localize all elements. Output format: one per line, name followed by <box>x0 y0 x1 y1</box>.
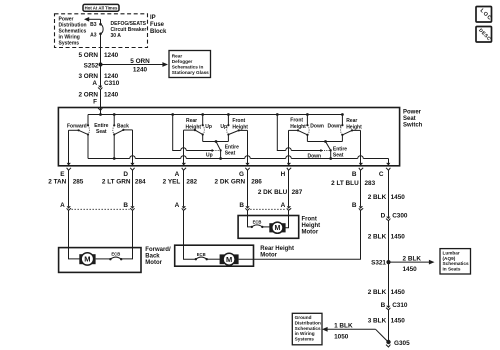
svg-text:5 ORN: 5 ORN <box>130 58 150 65</box>
svg-text:1450: 1450 <box>391 234 406 241</box>
svg-text:Rear: Rear <box>186 118 197 124</box>
svg-text:Front: Front <box>232 118 245 124</box>
svg-text:Back: Back <box>117 124 129 130</box>
Rear Height Motor box <box>175 245 254 266</box>
IP fuse block dashed box <box>55 14 148 48</box>
svg-text:IP: IP <box>150 15 156 21</box>
up block right contact stub <box>227 115 229 142</box>
svg-text:A: A <box>281 202 286 209</box>
wire D inside box <box>130 130 134 166</box>
wire rear height motor to B terminal <box>239 210 361 259</box>
LOC icon <box>476 7 493 23</box>
wire 2 DK BLU 287 <box>258 189 303 196</box>
up block left contact stub <box>202 115 204 142</box>
svg-text:1240: 1240 <box>104 73 119 80</box>
entire seat up feed wire <box>173 115 214 152</box>
connector dashed link G-H pair <box>250 208 286 210</box>
splice S321 <box>371 260 391 267</box>
wire S321 down to C310 <box>388 262 390 306</box>
svg-text:Motor: Motor <box>145 260 162 266</box>
arrow into ground distribution box <box>322 327 328 332</box>
wire 2 BLK 1450 (below C300) <box>368 234 406 241</box>
svg-text:A: A <box>60 202 65 209</box>
wire 2 LT GRN 284 <box>102 179 146 186</box>
svg-text:Rear Height: Rear Height <box>260 246 294 252</box>
svg-text:Defogger: Defogger <box>172 59 193 64</box>
svg-text:B: B <box>123 202 128 209</box>
Ground Distribution box <box>292 313 322 345</box>
svg-text:(AQ9): (AQ9) <box>443 256 456 261</box>
svg-text:Up: Up <box>206 153 213 159</box>
down block bottom edge <box>307 140 342 143</box>
svg-text:Distribution: Distribution <box>295 321 321 326</box>
svg-text:Forward: Forward <box>67 124 87 130</box>
up block bottom edge <box>203 140 229 143</box>
wire E to forward/back motor <box>69 210 82 259</box>
svg-text:287: 287 <box>292 189 303 196</box>
svg-text:282: 282 <box>186 179 197 186</box>
wire B inside box <box>359 130 363 165</box>
connector pin labels <box>60 202 357 209</box>
svg-text:2 BLK: 2 BLK <box>368 194 387 201</box>
svg-text:2 LT BLU: 2 LT BLU <box>331 180 359 187</box>
svg-text:1450: 1450 <box>403 266 418 273</box>
svg-text:1450: 1450 <box>391 289 406 296</box>
wire G inside box <box>245 130 249 165</box>
svg-text:Height: Height <box>302 223 321 229</box>
svg-text:Schematics: Schematics <box>443 261 469 266</box>
wire C inside box <box>386 159 390 166</box>
rear height motor ECB <box>195 252 208 261</box>
Lumbar Schematics box <box>440 249 471 274</box>
Rear Height Motor label <box>260 246 294 259</box>
svg-text:in Wiring: in Wiring <box>295 331 315 336</box>
splice S252 <box>84 62 103 69</box>
wire 2 LT BLU 283 <box>331 180 375 187</box>
5 ORN 1240 wire label <box>78 52 118 59</box>
wire C300 to S321 <box>388 221 390 262</box>
svg-text:1450: 1450 <box>391 194 406 201</box>
svg-text:Seat: Seat <box>403 116 416 122</box>
Entire Seat label (up) <box>225 144 239 156</box>
1 BLK 1050 label <box>334 323 353 341</box>
DESC icon <box>476 27 492 43</box>
wire breaker to C310 <box>100 34 102 86</box>
connector dashed link E-D pair <box>72 208 130 210</box>
svg-text:1240: 1240 <box>104 92 119 99</box>
svg-text:S321: S321 <box>371 260 386 267</box>
svg-text:Height: Height <box>186 124 202 130</box>
svg-text:Forward/: Forward/ <box>145 247 171 253</box>
wire C310 to switch F terminal <box>100 90 102 115</box>
svg-text:ECB: ECB <box>111 252 120 257</box>
wire C down to C300 <box>388 170 390 216</box>
svg-text:Motor: Motor <box>260 253 277 259</box>
svg-text:D: D <box>381 213 386 220</box>
svg-text:3 BLK: 3 BLK <box>368 317 387 324</box>
Front Height up switch <box>227 125 248 134</box>
svg-text:1240: 1240 <box>133 67 148 74</box>
wire 2 BLK 1450 (C) <box>368 194 406 201</box>
svg-text:2 BLK: 2 BLK <box>403 255 422 262</box>
DEFOG/SEATS Circuit Breaker 30 A label <box>111 21 147 39</box>
svg-text:A: A <box>175 202 180 209</box>
svg-text:E: E <box>60 171 65 178</box>
svg-text:285: 285 <box>73 179 84 186</box>
svg-text:Power: Power <box>403 109 422 115</box>
svg-text:Height: Height <box>232 124 248 130</box>
svg-text:S252: S252 <box>84 62 99 69</box>
branch wire to lumbar <box>389 260 435 265</box>
svg-text:1450: 1450 <box>391 317 406 324</box>
B+ top rail <box>88 114 342 116</box>
svg-text:Systems: Systems <box>59 41 80 47</box>
svg-text:Hot At All Times: Hot At All Times <box>85 5 118 10</box>
ground rail with hops <box>88 156 389 160</box>
Front Height Motor box <box>238 216 299 239</box>
svg-text:2 YEL: 2 YEL <box>163 179 181 186</box>
svg-text:1050: 1050 <box>334 333 349 340</box>
Forward/Back Motor box <box>59 248 141 273</box>
arrow to Power Distribution note <box>84 17 101 22</box>
svg-text:Front: Front <box>302 217 317 223</box>
Rear Height label (down) <box>346 118 362 131</box>
svg-text:D: D <box>123 171 128 178</box>
Power Seat Switch label <box>403 109 423 128</box>
svg-text:B: B <box>239 202 244 209</box>
svg-text:M: M <box>84 255 90 264</box>
wire 2 BLK 1450 (below S321) <box>368 289 406 296</box>
rail junction dots <box>99 113 344 116</box>
power seat switch box U1 <box>58 108 399 166</box>
svg-text:A: A <box>92 80 97 87</box>
connector C300 pin D <box>381 213 408 221</box>
forward/back motor M1 <box>79 253 95 265</box>
Hot At All Times label <box>83 4 119 11</box>
svg-text:Ground: Ground <box>295 315 312 320</box>
wire 2 YEL 282 <box>163 179 198 186</box>
svg-text:C310: C310 <box>392 302 408 309</box>
Power Distribution note <box>59 17 87 47</box>
svg-text:in Seats: in Seats <box>443 267 461 272</box>
Rear Height down switch <box>341 125 361 134</box>
wire H to front height motor <box>285 210 289 227</box>
svg-text:30 A: 30 A <box>111 33 122 39</box>
svg-text:Down: Down <box>310 124 324 130</box>
F terminal chevron <box>98 108 102 110</box>
wire arrow stub to breaker <box>100 19 102 24</box>
svg-text:Back: Back <box>145 254 160 260</box>
connector C310 pin A <box>92 80 119 90</box>
5 ORN 1240 branch label <box>130 58 150 73</box>
svg-text:Seat: Seat <box>96 129 107 135</box>
svg-text:B: B <box>352 202 357 209</box>
Front Height Motor label <box>302 217 321 236</box>
front height motor ECB <box>251 219 264 228</box>
Front Height label <box>232 118 248 131</box>
entire seat up switch <box>213 142 221 159</box>
svg-text:G: G <box>239 171 244 178</box>
svg-text:M: M <box>226 255 232 264</box>
wire G to front height motor ECB <box>248 210 252 227</box>
svg-text:Systems: Systems <box>295 336 315 341</box>
svg-text:Schematics: Schematics <box>295 326 321 331</box>
svg-text:283: 283 <box>365 180 376 187</box>
circuit breaker DEFOG/SEATS 30A <box>99 23 103 35</box>
svg-text:H: H <box>281 171 286 178</box>
svg-text:C310: C310 <box>104 80 120 87</box>
wire H inside box <box>287 130 291 165</box>
svg-text:Block: Block <box>150 29 167 35</box>
svg-text:C300: C300 <box>392 213 408 220</box>
wire E inside box <box>67 130 71 165</box>
rear height motor M2 <box>207 253 239 265</box>
Entire Seat label (fwd/back) <box>94 123 108 135</box>
svg-text:2 TAN: 2 TAN <box>48 179 66 186</box>
Entire Seat label (down) <box>333 147 347 159</box>
front height motor M3 <box>262 222 285 233</box>
svg-text:B: B <box>352 171 357 178</box>
2 ORN 1240 wire label <box>78 92 118 99</box>
svg-text:2 BLK: 2 BLK <box>368 289 387 296</box>
svg-text:Rear: Rear <box>172 53 183 58</box>
Front Height down switch <box>289 125 310 134</box>
Rear Defogger Schematics box <box>169 51 211 78</box>
forward/back motor ECB <box>96 252 123 261</box>
wire 3 BLK 1450 <box>368 317 406 324</box>
wire A to rear height motor <box>184 210 196 259</box>
wires from terminals down to connectors <box>69 170 361 206</box>
down block right contact stub <box>341 115 343 142</box>
svg-text:B: B <box>381 302 386 309</box>
svg-text:A3: A3 <box>90 32 97 38</box>
svg-text:Seat: Seat <box>333 153 344 159</box>
inline connector symbols row <box>67 206 364 210</box>
connector C310 pin B <box>381 302 408 310</box>
svg-text:Front: Front <box>290 117 303 123</box>
svg-text:286: 286 <box>251 179 262 186</box>
svg-text:2 DK BLU: 2 DK BLU <box>258 189 288 196</box>
svg-text:Motor: Motor <box>302 230 319 236</box>
svg-text:Height: Height <box>290 124 306 130</box>
entire seat down feed wire <box>277 115 322 152</box>
svg-text:2 BLK: 2 BLK <box>368 234 387 241</box>
svg-text:F: F <box>93 98 97 105</box>
ground G305 <box>386 340 410 347</box>
Forward/Back Motor label <box>145 247 171 266</box>
svg-text:1240: 1240 <box>104 52 119 59</box>
Forward switch <box>69 126 90 135</box>
svg-text:Up: Up <box>220 124 227 130</box>
wire C310 to G305 <box>388 310 390 342</box>
wire 1 BLK 1050 to ground <box>327 329 388 341</box>
2 BLK 1450 branch label <box>403 255 422 273</box>
svg-text:Rear: Rear <box>346 118 357 124</box>
svg-text:Seat: Seat <box>225 150 236 156</box>
wire 2 DK GRN 286 <box>215 179 263 186</box>
svg-text:2 DK GRN: 2 DK GRN <box>215 179 246 186</box>
Front Height label (down) <box>290 117 306 129</box>
down block left contact stub <box>306 115 308 142</box>
svg-text:284: 284 <box>135 179 146 186</box>
svg-text:ECB: ECB <box>253 219 262 224</box>
IP Fuse Block label <box>150 15 167 35</box>
svg-text:1 BLK: 1 BLK <box>334 323 353 330</box>
svg-text:Fuse: Fuse <box>150 22 165 28</box>
svg-text:3 ORN: 3 ORN <box>78 73 98 80</box>
svg-text:B3: B3 <box>90 22 97 28</box>
3 ORN 1240 wire label <box>78 73 118 80</box>
terminal chevrons below switch box <box>67 168 391 170</box>
svg-text:Down: Down <box>328 124 342 130</box>
svg-text:Height: Height <box>346 125 362 131</box>
svg-text:Up: Up <box>205 124 212 130</box>
svg-text:M: M <box>274 225 280 232</box>
entire seat fwd/back block left contact strip <box>87 115 89 159</box>
svg-text:G305: G305 <box>394 340 410 347</box>
svg-text:Schematics in: Schematics in <box>172 64 204 69</box>
entire seat down switch <box>322 142 332 159</box>
svg-text:A: A <box>175 171 180 178</box>
Rear Height label <box>186 118 202 131</box>
svg-text:Stationary Glass: Stationary Glass <box>172 70 209 75</box>
svg-text:Switch: Switch <box>403 122 423 128</box>
branch wire to rear defogger <box>101 62 169 67</box>
svg-text:5 ORN: 5 ORN <box>78 52 98 59</box>
svg-text:ECB: ECB <box>197 252 206 257</box>
svg-text:C: C <box>379 171 384 178</box>
terminal letters E D A G H B C <box>60 171 384 178</box>
wire A inside box <box>182 130 186 166</box>
entire seat fwd/back block right contact strip <box>113 115 115 159</box>
wire D to forward/back motor ECB <box>121 210 132 259</box>
svg-text:2 LT GRN: 2 LT GRN <box>102 179 131 186</box>
svg-text:Lumbar: Lumbar <box>443 251 460 256</box>
wire 2 TAN 285 <box>48 179 84 186</box>
Back switch <box>113 126 133 135</box>
Rear Height up switch <box>184 125 205 134</box>
